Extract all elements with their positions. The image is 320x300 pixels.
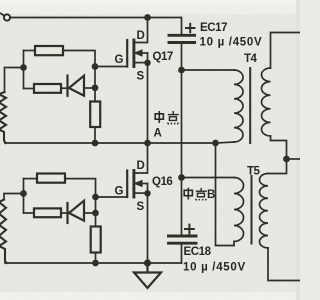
transformer T5 secondary winding bbox=[260, 174, 269, 248]
resistor R2 (top block, lower) bbox=[24, 88, 35, 90]
transformer T5 primary winding bbox=[234, 178, 244, 242]
CJK glyphs drawn as strokes (Liberation has no CJK) bbox=[155, 111, 207, 200]
node: diode node dot (top block) bbox=[92, 84, 99, 91]
wire: gate column vertical (bottom block) bbox=[95, 197, 97, 227]
wire: B column vertical (EC17- to EC18+) bbox=[181, 70, 183, 236]
transformer T4 primary winding bbox=[182, 69, 235, 71]
diode D2 (bottom block) bbox=[68, 201, 85, 223]
winding W2 (gate drive, left edge, bottom block) bbox=[0, 200, 7, 264]
label 点 (of 中点 A) bbox=[168, 111, 179, 124]
wire: tap to edge bbox=[287, 158, 301, 160]
wire: rail A (midpoint A) bbox=[5, 142, 216, 144]
node: midpoint B dot bbox=[178, 174, 185, 181]
wire: Q16 source down to ground rail bbox=[147, 193, 149, 263]
resistor R3 (top block, vertical) bbox=[90, 102, 100, 128]
wire: left vertical (top block) bbox=[23, 51, 25, 89]
wire: gate column vertical (top block) bbox=[94, 67, 96, 102]
transistor Q17 (N-MOSFET) bbox=[127, 18, 151, 67]
label 中 (of 中点 A) bbox=[155, 111, 163, 123]
node dot left (top block) bbox=[20, 64, 27, 71]
transistor Q16 (N-MOSFET) bbox=[127, 143, 151, 197]
wire: Q17 source down to rail A bbox=[147, 63, 149, 143]
node dots on rail A bbox=[92, 140, 99, 147]
node dot left (bottom block) bbox=[20, 190, 27, 197]
node: EC17 bottom dot bbox=[178, 67, 185, 74]
wire: ground rail bbox=[5, 262, 182, 264]
wire: gate lead to Q16 bbox=[96, 196, 128, 198]
wire: midpoint B to T5 primary top bbox=[182, 177, 235, 179]
capacitor EC18 bbox=[169, 225, 197, 263]
node: gate node dot (top block) bbox=[92, 63, 99, 70]
resistor R4 (bottom block, upper) bbox=[24, 178, 38, 180]
winding W1 (gate drive, left edge, top block) bbox=[0, 92, 6, 143]
resistor R1 (top block, upper) bbox=[24, 50, 36, 52]
wire: left vertical (bottom block) bbox=[23, 179, 25, 213]
node: secondary tap dot bbox=[283, 156, 290, 163]
node: diode node dot (bottom block) bbox=[92, 210, 99, 217]
node: top rail / Q17 drain junction bbox=[144, 14, 151, 21]
resistor R5 (bottom block, lower) bbox=[24, 212, 35, 214]
T5 core bbox=[251, 176, 253, 244]
wire: top rail from terminal to EC17 top bbox=[10, 18, 182, 35]
transformer T4 secondary winding bbox=[271, 33, 301, 69]
wire: A column down to T5 primary bottom bbox=[216, 143, 235, 246]
node dots on ground rail bbox=[92, 260, 99, 267]
label 点 (of 中点B) bbox=[196, 188, 207, 201]
diode D1 (top block) bbox=[68, 76, 85, 96]
ground bbox=[134, 263, 161, 288]
capacitor EC17 bbox=[169, 24, 195, 70]
wire: gate transformer winding upper lead (bottom block) bbox=[4, 194, 24, 200]
input terminal J1 bbox=[0, 13, 10, 21]
resistor R6 (bottom block, vertical) bbox=[91, 227, 101, 253]
T4 core bbox=[249, 68, 251, 143]
wire: gate transformer winding upper lead (top block) bbox=[5, 68, 24, 93]
wire: gate lead to Q17 bbox=[95, 66, 127, 68]
label 中 (of 中点B) bbox=[184, 188, 192, 200]
node: gate node dot (bottom block) bbox=[92, 194, 99, 201]
